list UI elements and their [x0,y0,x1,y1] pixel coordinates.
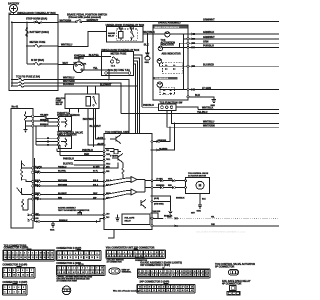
CU internal op-amps [127,177,145,196]
svg-text:12: 12 [108,255,110,257]
svg-text:9: 9 [59,257,60,259]
CU bottom stub [108,230,114,239]
svg-text:VSA CONVERTER UNIT 22P CONNECT: VSA CONVERTER UNIT 22P CONNECTOR [106,247,155,250]
svg-text:25: 25 [168,275,170,277]
svg-text:5 V(REF): 5 V(REF) [110,155,118,157]
svg-text:BLK: BLK [195,94,200,97]
svg-text:FAIL-SAFE: FAIL-SAFE [125,217,136,220]
svg-text:3: 3 [70,253,71,255]
battery B1 [8,3,20,15]
svg-text:WHT/GRN: WHT/GRN [60,19,72,22]
CU fail-safe relay inner box [115,214,150,225]
svg-text:5: 5 [129,252,130,254]
svg-text:26: 26 [177,286,179,288]
gauge assembly test tachometer connector note [58,207,90,212]
svg-text:UNDER-HOOD FUSE/RELAY BOX: UNDER-HOOD FUSE/RELAY BOX [17,12,56,15]
svg-text:16: 16 [202,271,204,273]
svg-text:+B4 STR: +B4 STR [97,142,105,145]
svg-text:31: 31 [144,290,146,292]
svg-text:7.5 A: 7.5 A [111,64,116,67]
wire: battery to ignition [58,64,74,66]
svg-text:STOP HORN (20A): STOP HORN (20A) [26,18,47,21]
svg-text:BRN/BLK: BRN/BLK [176,198,185,200]
svg-text:18: 18 [139,286,141,288]
svg-text:17: 17 [87,272,89,274]
CU internal transistor 1 [110,135,121,144]
svg-text:GRN/WHT: GRN/WHT [203,19,215,22]
svg-text:+B STB: +B STB [97,137,104,139]
svg-text:17: 17 [206,271,208,273]
svg-text:10: 10 [101,268,103,270]
wire to right edge y37.4 [189,38,279,40]
svg-text:16: 16 [82,272,84,274]
SEC-CU [34,123,279,238]
svg-text:BRN/BLK: BRN/BLK [59,220,68,222]
svg-text:10: 10 [64,257,66,259]
svg-text:8: 8 [97,253,98,255]
svg-text:27: 27 [182,286,184,288]
brake system indicator band [153,26,187,29]
svg-text:BRAKE SYSTEM INDICATOR: BRAKE SYSTEM INDICATOR [155,26,180,29]
svg-text:(ALB): (ALB) [154,197,159,200]
wire TPS C to YEL/BLU line [176,107,198,109]
svg-text:21: 21 [153,286,155,288]
svg-text:LT GRN: LT GRN [202,87,211,90]
svg-text:G501: G501 [145,62,149,64]
svg-text:9: 9 [9,274,10,276]
svg-text:5: 5 [20,252,21,254]
svg-text:20: 20 [147,275,149,277]
svg-text:THL: THL [106,150,109,152]
svg-text:15: 15 [77,272,79,274]
svg-text:SI DP (50A): SI DP (50A) [31,59,44,62]
CU internal transistor 2 [141,200,146,209]
svg-text:3: 3 [147,271,148,273]
wires: modulator pins to CU [34,166,104,199]
svg-text:BLK/YEL: BLK/YEL [89,54,100,57]
svg-text:GAUGE ASSEMBLY: GAUGE ASSEMBLY [158,21,181,24]
svg-text:CONNECTOR A (26P): CONNECTOR A (26P) [4,247,29,250]
fail safe relay 4P connector [230,285,236,290]
svg-text:3P CONNECTOR: 3P CONNECTOR [215,266,235,269]
svg-text:10: 10 [23,291,25,293]
svg-text:BATTERY (100A): BATTERY (100A) [30,31,50,34]
svg-text:SC FL: SC FL [93,171,98,173]
svg-text:5: 5 [23,287,24,289]
svg-text:18: 18 [20,257,22,259]
svg-text:11: 11 [44,252,46,254]
svg-text:ACG (S) FUSE 7.5A: ACG (S) FUSE 7.5A [108,69,131,72]
brake pedal position switch [58,14,108,23]
svg-text:WHT/GRN: WHT/GRN [58,180,68,182]
svg-text:22: 22 [36,257,38,259]
svg-text:1: 1 [59,253,60,255]
SEC-MIDLEFT [11,77,138,228]
wire: relay output to gauge [143,33,153,35]
fuses TCS group [11,76,58,88]
svg-text:19: 19 [96,272,98,274]
svg-text:15: 15 [124,255,126,257]
wire to right edge y91 [189,89,279,91]
wires modulator to throttle sensor [34,115,58,127]
fuse STOP HORN (20A) [26,18,47,24]
gauge assembly box [153,21,188,100]
SEC-TOPMID [58,14,279,134]
svg-text:10: 10 [177,271,179,273]
svg-text:20: 20 [28,257,30,259]
svg-text:33: 33 [202,275,204,277]
svg-text:32: 32 [149,290,151,292]
svg-text:7: 7 [87,268,88,270]
svg-text:BLK/YEL: BLK/YEL [58,171,67,173]
svg-text:8: 8 [168,271,169,273]
node: bus junctions [11,21,13,23]
svg-text:SOL B: SOL B [93,180,99,182]
connector C (10P) pin grid [13,283,17,284]
svg-text:16: 16 [129,255,131,257]
svg-text:GRN/BLK: GRN/BLK [203,31,214,34]
svg-text:PNK/BLU: PNK/BLU [143,104,154,107]
svg-text:25: 25 [47,257,49,259]
bus line x35 [34,158,36,222]
svg-text:INDICATOR: INDICATOR [161,44,175,47]
modulator lower pins [32,167,43,221]
TCS activation indicator text [161,39,176,47]
svg-text:CONNECTOR E (20P): CONNECTOR E (20P) [56,262,81,265]
svg-text:BLK: BLK [144,44,149,47]
svg-text:WHT/BLU: WHT/BLU [61,44,72,47]
TCS control valve actuator motor [185,172,210,193]
wire to right edge y112.4 [121,113,279,115]
svg-text:WHT: WHT [63,62,69,65]
connector A (26P) pin grid [27,249,31,250]
throttle position switch connector [159,101,183,110]
svg-text:28: 28 [186,286,188,288]
svg-text:12: 12 [47,252,49,254]
CU right pins [151,141,153,227]
throttle position sensor [57,112,80,131]
ABS/TCS modulator unit box [11,106,33,228]
wires: fuse box to relay area [58,77,138,145]
svg-text:METER FUSE: METER FUSE [111,52,127,55]
CU internal links [105,149,152,188]
CAN wires [152,210,279,226]
VSA converter 22P pin grid [134,249,138,250]
svg-text:6: 6 [24,252,25,254]
svg-text:BLK/WHT: BLK/WHT [58,193,68,195]
svg-text:21: 21 [32,257,34,259]
SEC-RIGHT [121,19,279,128]
inline connector pins on gauge output wires [192,33,195,90]
svg-text:BLU/WHT: BLU/WHT [63,83,75,86]
lamp: TCS indicator [157,82,187,95]
svg-text:2: 2 [9,287,10,289]
relay box under-hood #2 [106,24,145,42]
svg-text:METER FUSE: METER FUSE [30,41,46,44]
svg-text:21: 21 [152,275,154,277]
svg-text:29: 29 [185,275,187,277]
tachometer test connector symbol [78,211,82,215]
wire to right edge y33.8 [189,33,279,35]
wires angle sensor left [36,126,58,145]
svg-text:RED: RED [84,153,89,156]
svg-text:18: 18 [139,275,141,277]
under-dash fuse/relay box [101,49,140,76]
wires CU to motor [153,178,185,188]
relay K1 coil [119,32,124,38]
svg-text:13: 13 [80,257,82,259]
svg-text:2: 2 [143,271,144,273]
svg-text:YEL/BLU: YEL/BLU [197,111,208,114]
svg-text:THL1: THL1 [106,159,110,161]
wire: battery bus [12,21,58,23]
svg-text:WHT/BLU: WHT/BLU [203,121,214,124]
svg-text:THL2: THL2 [106,164,110,166]
svg-text:2001-06 MDX SYSTEM WIRING DIAG: 2001-06 MDX SYSTEM WIRING DIAGRAMS tcs c… [196,231,246,234]
svg-text:RELAY: RELAY [56,103,63,106]
under-hood fuse/relay box [9,12,58,91]
svg-text:4P CONNECTOR: 4P CONNECTOR [222,282,242,285]
modulator internal components [17,161,32,221]
svg-text:27: 27 [177,275,179,277]
SEC-TOPLEFT [8,3,58,91]
svg-text:3: 3 [12,252,13,254]
wires: under-dash box outputs [134,55,142,107]
CU internal connections to op-amps [105,178,127,199]
svg-text:5: 5 [77,268,78,270]
svg-text:30: 30 [139,290,141,292]
svg-text:RELAY: RELAY [108,34,115,37]
svg-text:11: 11 [70,257,72,259]
svg-text:19: 19 [24,257,26,259]
svg-text:11: 11 [161,252,163,254]
svg-text:10: 10 [13,274,15,276]
svg-text:26: 26 [51,257,53,259]
wire: stop signal to right edge [82,21,279,23]
svg-text:IMOBLZR: IMOBLZR [164,216,173,218]
lamp: brake indicator [153,32,187,39]
svg-text:22: 22 [158,286,160,288]
wire LSB to CU with ground [35,218,105,231]
svg-text:5: 5 [22,270,23,272]
svg-text:2: 2 [9,270,10,272]
svg-text:PNK/BLU: PNK/BLU [63,158,74,161]
wire TPS A down [167,111,279,128]
svg-text:35: 35 [163,290,165,292]
svg-text:11: 11 [18,274,20,276]
svg-text:29: 29 [191,286,193,288]
svg-text:30: 30 [189,275,191,277]
svg-text:YEL: YEL [93,67,98,70]
svg-text:7: 7 [31,270,32,272]
svg-text:12: 12 [63,272,65,274]
connector D (16P) pin grid [77,249,81,250]
fuse METER (7.5A) [26,41,58,47]
wire TPS left [142,106,159,108]
mini connector glyph [109,268,120,274]
svg-text:2: 2 [9,252,10,254]
svg-text:G401: G401 [197,209,201,212]
svg-text:28: 28 [181,275,183,277]
svg-text:TEST TACHOMETER CONNECTOR: TEST TACHOMETER CONNECTOR [58,209,90,212]
svg-text:9: 9 [151,252,152,254]
gauge 24P pin grid [164,283,168,284]
svg-text:36: 36 [167,290,169,292]
svg-text:11: 11 [58,272,60,274]
svg-text:PNK/BLU: PNK/BLU [82,149,93,152]
svg-text:GRN: GRN [203,41,209,44]
svg-text:33: 33 [153,290,155,292]
fuse SI DP (50A) [27,59,58,65]
svg-text:LT GRN: LT GRN [156,178,163,180]
svg-text:GRN/ORN: GRN/ORN [158,140,167,142]
svg-text:IG1: IG1 [84,63,87,65]
svg-text:BATTERY: BATTERY [8,3,20,6]
svg-text:11: 11 [181,271,183,273]
SEC-BOTTOM [3,244,256,295]
svg-text:TCS INDICATOR: TCS INDICATOR [155,77,169,80]
svg-text:22: 22 [161,255,163,257]
svg-text:(STM GND): (STM GND) [154,204,164,206]
svg-text:WHT/GRN: WHT/GRN [58,184,68,186]
svg-text:18: 18 [92,272,94,274]
svg-text:38: 38 [177,290,179,292]
svg-text:RED: RED [58,197,63,199]
svg-text:19: 19 [144,286,146,288]
svg-text:GRN: GRN [168,178,173,180]
svg-text:15: 15 [9,257,11,259]
svg-text:22: 22 [156,275,158,277]
svg-text:10: 10 [40,252,42,254]
wire TPS B down [172,111,279,124]
svg-text:19: 19 [143,275,145,277]
svg-text:6: 6 [160,271,161,273]
ground G501 [144,34,150,64]
svg-text:BLK/WHT: BLK/WHT [100,83,112,86]
svg-text:20: 20 [149,286,151,288]
svg-text:M: M [199,184,202,188]
svg-text:No.4: No.4 [119,27,123,30]
svg-text:12: 12 [75,257,77,259]
svg-text:31: 31 [194,275,196,277]
svg-text:2: 2 [63,268,64,270]
svg-text:AT CONNECTOR: AT CONNECTOR [107,261,123,264]
connector G101 round [62,286,71,295]
svg-text:BRN/WHT: BRN/WHT [83,118,95,121]
svg-text:20: 20 [151,255,153,257]
CU pin labels column [106,167,112,220]
motor relay box [56,94,99,108]
svg-text:PNK/BLU: PNK/BLU [58,166,67,168]
wire: IG1 to under-dash box [79,57,102,62]
svg-text:39: 39 [182,290,184,292]
svg-text:23: 23 [163,286,165,288]
svg-text:13: 13 [113,255,115,257]
svg-text:25: 25 [172,286,174,288]
svg-text:ACTUATOR MOTOR: ACTUATOR MOTOR [188,174,207,177]
connector B (14P) pin grid [17,266,21,267]
svg-text:23: 23 [160,275,162,277]
wire LSO to CU [34,214,104,216]
svg-text:TERMINAL: TERMINAL [122,271,133,274]
wire: meter fuse feed to relay [58,32,107,47]
svg-text:G101: G101 [50,229,54,231]
svg-text:RELAY: RELAY [125,220,132,223]
lamp: TCS activation [158,43,187,50]
wires: relay box down [69,108,104,147]
svg-text:20: 20 [101,272,103,274]
svg-text:17: 17 [16,257,18,259]
svg-text:SC MTR: SC MTR [93,166,100,168]
wire to right edge y66.2 [189,65,279,67]
wire to right edge y43.4 [189,42,279,44]
TCS actuator 3P connector [229,270,239,275]
svg-text:GRN/WHT: GRN/WHT [203,36,215,39]
svg-text:BLK/WHT: BLK/WHT [90,125,102,128]
wire: left bus [11,22,13,86]
svg-text:10: 10 [156,252,158,254]
svg-text:37: 37 [172,290,174,292]
wire CU right y141.5 [153,126,171,150]
CU ground wires ALB/STM [153,196,185,219]
wire: battery feed bus [26,22,28,64]
TCS indicator band [153,77,177,80]
svg-text:PUR/BLU: PUR/BLU [203,45,214,48]
ignition switch [73,55,86,73]
svg-text:13: 13 [68,272,70,274]
svg-text:SOL A: SOL A [93,183,99,186]
svg-text:34P CONNECTOR C (34P): 34P CONNECTOR C (34P) [140,264,170,267]
svg-text:12: 12 [185,271,187,273]
svg-text:32: 32 [198,275,200,277]
svg-text:No.41: No.41 [12,106,19,109]
svg-text:15: 15 [198,271,200,273]
svg-text:15: 15 [91,257,93,259]
svg-text:26: 26 [173,275,175,277]
svg-text:ABS INDICATOR: ABS INDICATOR [162,52,181,55]
diodes TCS [163,90,172,93]
svg-text:16: 16 [97,257,99,259]
svg-text:WHT/GRN: WHT/GRN [203,125,215,128]
svg-text:1: 1 [58,268,59,270]
TCS control valve angle sensor [57,131,83,148]
diodes ABS [165,65,175,69]
fuse BATTERY (100A) [26,27,49,37]
gauge right edge pins [187,33,189,98]
wire to right edge y50.4 [189,46,279,48]
wire CU right y150 [153,123,175,151]
SEC-GAUGE [142,21,279,127]
svg-text:13: 13 [189,271,191,273]
wire: ignition ACC branch [83,70,109,80]
gauge internal return bus [183,34,185,90]
svg-text:CAN BUS: CAN BUS [152,210,161,213]
CU left pins [97,137,110,219]
svg-text:AT CONNECTOR VIEW: AT CONNECTOR VIEW [56,280,77,283]
connector E (20P) pin grid [79,264,83,265]
TCS control unit box [104,131,152,230]
wires into control unit left [57,145,104,166]
svg-text:No.2: No.2 [130,28,134,30]
svg-text:12: 12 [22,274,24,276]
CU internal 5V regulator [110,150,124,179]
svg-text:21: 21 [156,255,158,257]
motor ground G401 [197,194,207,213]
svg-text:7: 7 [9,291,10,293]
connector marks on modulator wires [37,167,40,200]
relay K1 contact [131,31,133,33]
inline connector pins on sensor wires [44,116,48,146]
